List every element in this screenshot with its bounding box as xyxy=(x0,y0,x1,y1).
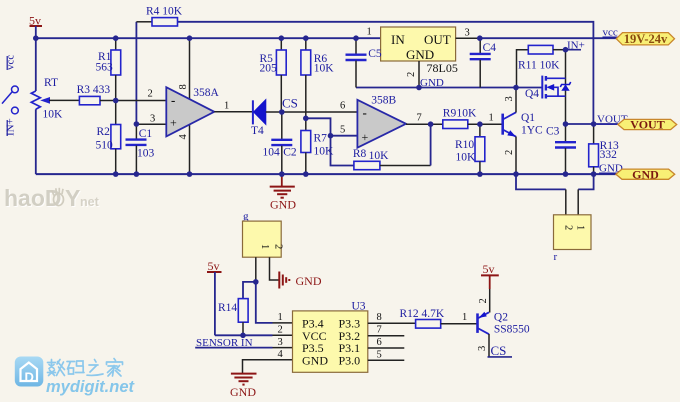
svg-text:+: + xyxy=(362,130,369,144)
svg-text:RT: RT xyxy=(44,77,58,89)
resistor R1 xyxy=(96,38,121,100)
svg-text:2: 2 xyxy=(563,225,574,230)
node 358B output junction xyxy=(428,121,434,127)
svg-text:205: 205 xyxy=(260,63,278,75)
node 78L05 GND junction xyxy=(416,85,422,91)
ground symbol (rotated, right of g) xyxy=(279,272,322,289)
resistor R5 xyxy=(260,38,287,112)
svg-text:10K: 10K xyxy=(43,109,64,121)
svg-text:5: 5 xyxy=(377,349,382,360)
wire r-connector pin1 path xyxy=(578,174,593,215)
svg-text:5v: 5v xyxy=(208,259,220,273)
svg-text:104: 104 xyxy=(263,147,281,159)
transistor Q1 xyxy=(503,88,543,175)
svg-text:2: 2 xyxy=(478,298,489,303)
svg-text:103: 103 xyxy=(137,148,155,160)
resistor R7 xyxy=(301,131,334,175)
wire 78L05 GND / Q1 collector / Q4 gate xyxy=(356,87,542,89)
net label IN+ xyxy=(566,40,585,52)
svg-text:10K: 10K xyxy=(369,150,390,162)
net label GND (right) xyxy=(599,163,623,175)
svg-text:563: 563 xyxy=(96,62,114,74)
svg-text:R11 10K: R11 10K xyxy=(518,60,560,72)
connector r xyxy=(554,215,592,263)
svg-text:3: 3 xyxy=(465,28,470,39)
wire R4 left vertical to pin3 node xyxy=(135,22,137,124)
node CS junction xyxy=(279,109,285,115)
resistor R14 xyxy=(218,282,256,335)
svg-text:C3: C3 xyxy=(546,126,560,138)
capacitor C2 xyxy=(263,112,297,174)
svg-text:332: 332 xyxy=(600,149,618,161)
diode T4 xyxy=(251,100,282,137)
node pin2 junction xyxy=(113,98,119,104)
thermistor RT xyxy=(31,38,79,174)
svg-text:GND: GND xyxy=(296,274,322,288)
node pin5 junction xyxy=(328,133,334,139)
svg-text:R10: R10 xyxy=(455,139,474,151)
node g pin1 junction xyxy=(253,279,259,285)
wire pin5 node down to R8 xyxy=(331,136,354,166)
MCU U3 xyxy=(293,301,368,373)
svg-text:VOUT: VOUT xyxy=(630,118,664,132)
svg-text:3: 3 xyxy=(278,337,283,348)
svg-text:1: 1 xyxy=(224,101,229,112)
svg-text:C1: C1 xyxy=(139,128,153,140)
svg-text:vcc: vcc xyxy=(603,27,618,39)
svg-text:Q1: Q1 xyxy=(521,112,535,124)
svg-text:R4 10K: R4 10K xyxy=(146,6,183,18)
svg-text:GND: GND xyxy=(632,167,659,181)
svg-text:net: net xyxy=(80,195,100,209)
svg-text:-: - xyxy=(171,93,175,108)
resistor R9 xyxy=(443,108,503,129)
svg-text:2: 2 xyxy=(278,325,283,336)
svg-text:2: 2 xyxy=(273,244,284,249)
svg-text:510: 510 xyxy=(96,140,114,152)
node Q1 collector junction xyxy=(513,85,519,91)
power symbol 5v (bottom middle) xyxy=(207,259,243,335)
wire U3 pin7 xyxy=(368,325,405,336)
resistor R4 xyxy=(136,6,182,27)
svg-text:GND: GND xyxy=(270,198,296,212)
wire vcc to 19V-24v port xyxy=(480,27,618,39)
connector vcc/IN+ pins (far left) xyxy=(2,55,18,136)
wire r-connector pin2 path xyxy=(516,174,566,215)
op-amp U1B 358B xyxy=(357,94,406,147)
transistor Q2 SS8550 xyxy=(477,298,530,358)
port VOUT xyxy=(618,118,677,132)
svg-text:78L05: 78L05 xyxy=(427,61,458,75)
svg-text:358B: 358B xyxy=(371,94,396,106)
svg-text:SS8550: SS8550 xyxy=(494,324,530,336)
svg-text:10K: 10K xyxy=(457,108,478,120)
svg-text:6: 6 xyxy=(377,337,382,348)
resistor R12 xyxy=(400,308,478,328)
svg-text:2: 2 xyxy=(406,72,417,77)
svg-text:3: 3 xyxy=(150,114,155,125)
svg-text:1: 1 xyxy=(259,244,270,249)
wire CS node to pin6 of 358B xyxy=(282,101,358,113)
svg-text:19V-24v: 19V-24v xyxy=(624,32,668,46)
svg-text:4: 4 xyxy=(178,134,189,140)
wire 358A output pin1 xyxy=(214,101,253,112)
svg-text:8: 8 xyxy=(377,312,382,323)
node pin3 junction xyxy=(134,121,140,127)
wire bottom ground rail xyxy=(36,173,616,175)
capacitor C5 xyxy=(346,38,382,87)
resistor R10 xyxy=(455,124,485,174)
wire pin3 of 358A xyxy=(136,114,166,125)
capacitor C1 xyxy=(126,124,155,174)
svg-text:4: 4 xyxy=(278,349,284,360)
svg-text:R3 433: R3 433 xyxy=(77,84,111,96)
connector g xyxy=(243,211,284,282)
svg-text:-: - xyxy=(363,105,367,120)
wire U3 pin8 xyxy=(368,312,416,323)
svg-text:3: 3 xyxy=(477,346,488,351)
svg-text:1: 1 xyxy=(367,27,372,38)
resistor R8 xyxy=(353,124,431,170)
transistor Q4 (P-MOSFET with body diode) xyxy=(525,50,571,124)
svg-text:1: 1 xyxy=(489,113,494,124)
power symbol 5v (bottom right) xyxy=(481,262,499,313)
svg-text:5v: 5v xyxy=(483,262,495,276)
svg-text:P3.0: P3.0 xyxy=(339,353,361,367)
wire U3 pin2 (VCC) xyxy=(243,325,293,336)
ground symbol (main, below C2) xyxy=(270,174,297,211)
resistor R11 xyxy=(517,45,566,87)
op-amp U1A 358A xyxy=(166,38,219,174)
wire U3 pin6 xyxy=(368,337,405,348)
wire R4 top feedback to VOUT xyxy=(178,22,594,124)
watermark mydigit logo xyxy=(15,357,44,387)
port 19V-24v xyxy=(616,32,674,46)
svg-text:OUT: OUT xyxy=(424,32,451,47)
svg-text:Y: Y xyxy=(65,185,80,211)
svg-text:GND: GND xyxy=(302,353,328,367)
node R6/R7 junction xyxy=(303,116,309,122)
port GND xyxy=(616,167,675,181)
svg-text:10K: 10K xyxy=(456,152,477,164)
svg-text:C2: C2 xyxy=(283,147,297,159)
svg-text:IN+: IN+ xyxy=(5,118,17,136)
resistor R6 xyxy=(301,38,334,130)
svg-text:r: r xyxy=(554,251,558,263)
svg-text:D: D xyxy=(25,370,34,385)
svg-text:R14: R14 xyxy=(218,302,237,314)
resistor R13 xyxy=(589,124,619,174)
svg-text:+: + xyxy=(170,116,177,130)
svg-text:GND: GND xyxy=(406,47,434,62)
node 5v rail junctions xyxy=(33,35,39,41)
watermark mydigit text xyxy=(46,359,136,397)
svg-text:vcc: vcc xyxy=(5,55,17,70)
net label SENSOR IN / wire U3 pin3 xyxy=(195,337,292,349)
net label CS xyxy=(282,96,298,111)
svg-text:1: 1 xyxy=(575,225,586,230)
node ground rail junctions xyxy=(113,171,119,177)
svg-text:1: 1 xyxy=(278,312,283,323)
wire pin2 of 358A xyxy=(116,89,167,101)
svg-text:2: 2 xyxy=(504,150,515,155)
svg-text:7: 7 xyxy=(377,325,382,336)
svg-text:R7: R7 xyxy=(314,133,328,145)
capacitor C4 xyxy=(470,38,497,87)
svg-text:C5: C5 xyxy=(368,48,382,60)
svg-text:T4: T4 xyxy=(251,125,264,137)
svg-text:7: 7 xyxy=(417,113,422,124)
svg-text:3: 3 xyxy=(504,96,515,101)
svg-text:mydigit.net: mydigit.net xyxy=(46,378,136,396)
svg-text:C4: C4 xyxy=(483,42,497,54)
svg-text:10K: 10K xyxy=(314,63,335,75)
svg-text:CS: CS xyxy=(491,343,507,358)
resistor R3 xyxy=(77,84,116,105)
svg-text:IN: IN xyxy=(391,32,405,47)
svg-text:358A: 358A xyxy=(193,87,219,99)
svg-text:R8: R8 xyxy=(353,148,367,160)
wire 5v top rail xyxy=(36,37,381,39)
wire VOUT node xyxy=(566,114,628,126)
svg-text:6: 6 xyxy=(340,101,345,112)
ground symbol (below U3) xyxy=(230,374,257,399)
watermark haoDIY.net xyxy=(4,185,100,211)
svg-text:SENSOR IN: SENSOR IN xyxy=(196,337,253,349)
regulator U2 78L05 xyxy=(367,27,480,90)
wire U3 pin5 xyxy=(368,349,405,360)
power symbol 5v (top left) xyxy=(29,14,42,39)
svg-text:Q2: Q2 xyxy=(494,312,508,324)
resistor R2 xyxy=(96,101,121,175)
node C4 top junction xyxy=(477,35,483,41)
svg-text:8: 8 xyxy=(178,84,189,89)
node VOUT junctions xyxy=(563,121,569,127)
svg-text:GND: GND xyxy=(230,385,256,399)
svg-text:IN+: IN+ xyxy=(567,40,585,52)
node IN+ junction xyxy=(563,47,569,53)
svg-text:2: 2 xyxy=(148,89,153,100)
svg-text:R12 4.7K: R12 4.7K xyxy=(400,308,445,320)
svg-text:R9: R9 xyxy=(443,108,457,120)
svg-text:GND: GND xyxy=(420,77,444,89)
wire U3 pin4 (GND) xyxy=(243,349,293,373)
wire 358B output pin7 xyxy=(406,113,443,125)
wire R6/R7 node to pin5 of 358B xyxy=(306,118,358,135)
node Q1 base junction xyxy=(477,121,483,127)
svg-text:Q4: Q4 xyxy=(525,88,539,100)
svg-text:CS: CS xyxy=(282,96,298,111)
node R14 bottom junction xyxy=(240,333,246,339)
svg-text:1: 1 xyxy=(462,312,467,323)
svg-text:5: 5 xyxy=(340,125,345,136)
svg-text:R2: R2 xyxy=(97,126,111,138)
svg-text:1YC: 1YC xyxy=(521,125,543,137)
capacitor C3 xyxy=(546,124,576,174)
wire U3 pin1 xyxy=(256,282,293,323)
